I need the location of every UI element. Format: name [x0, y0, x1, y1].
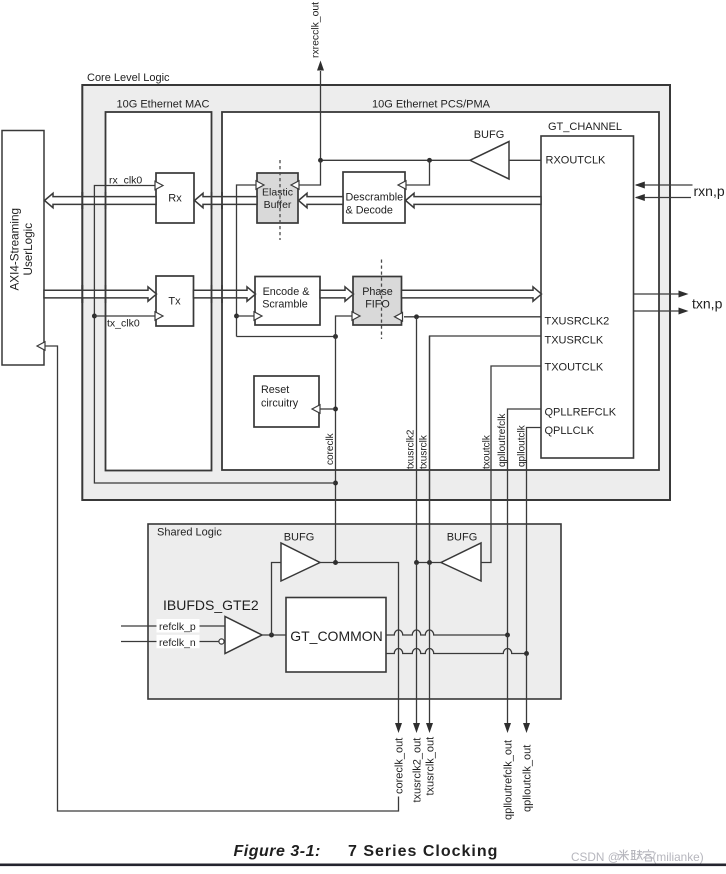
wire rxrecclk to Elastic Buffer read clock	[297, 160, 321, 185]
wire qplloutrefclk_out output arrow	[507, 699, 509, 724]
svg-text:FIFO: FIFO	[365, 299, 390, 311]
wire TXUSRCLK2 pin to Phase FIFO read clock	[404, 316, 541, 318]
svg-text:QPLLREFCLK: QPLLREFCLK	[545, 407, 617, 419]
node coreclk-to-userlogic junction	[333, 481, 338, 486]
wire coreclk vertical (to shared logic BUFG)	[335, 337, 337, 563]
block Encode & Scramble	[255, 277, 320, 326]
wire coreclk horizontal segment	[237, 336, 336, 338]
node tx_clk0 junction	[92, 314, 97, 319]
wire TXOUTCLK pin to BUFG input	[481, 366, 541, 563]
svg-text:Phase: Phase	[362, 286, 393, 298]
svg-text:10G Ethernet MAC: 10G Ethernet MAC	[117, 98, 210, 110]
block AXI4-Streaming UserLogic	[2, 131, 44, 366]
buffer BUFG (coreclk)	[281, 543, 320, 581]
svg-text:10G Ethernet PCS/PMA: 10G Ethernet PCS/PMA	[372, 98, 491, 110]
wire GT_COMMON qplloutrefclk output (with crossover hops)	[386, 630, 508, 635]
block Elastic Buffer	[257, 173, 298, 223]
bus Encode & Scramble to Phase FIFO (tx data)	[320, 287, 354, 301]
wire coreclk to Phase FIFO write clock	[336, 316, 353, 337]
svg-text:GT_COMMON: GT_COMMON	[290, 628, 383, 644]
wire BUFG output (rxoutclk distribution)	[321, 159, 471, 161]
node rxrecclk junction	[318, 158, 323, 163]
svg-text:txusrclk: txusrclk	[419, 434, 430, 469]
node coreclk-to-Encode junction	[234, 314, 239, 319]
node coreclk BUFG tap	[333, 560, 338, 565]
wire txusrclk2/txusrclk verticals to outputs	[416, 563, 418, 700]
wire rxoutclk to Descramble clock	[404, 160, 430, 185]
svg-text:AXI4-Streaming: AXI4-Streaming	[9, 208, 22, 291]
wire txusrclk_out output arrow	[429, 699, 431, 724]
wire TXUSRCLK pin run	[430, 336, 542, 563]
svg-text:qplloutrefclk: qplloutrefclk	[497, 413, 508, 467]
svg-text:Scramble: Scramble	[262, 299, 308, 311]
svg-text:Reset: Reset	[261, 384, 289, 396]
node qplloutrefclk junction	[505, 633, 510, 638]
buffer BUFG (txusrclk)	[441, 543, 481, 581]
svg-text:Encode &: Encode &	[263, 286, 311, 298]
buffer BUFG (RXOUTCLK)	[470, 142, 509, 180]
svg-text:TXUSRCLK2: TXUSRCLK2	[545, 316, 610, 328]
svg-text:txusrclk2_out: txusrclk2_out	[412, 738, 424, 803]
svg-text:rxn,p: rxn,p	[694, 183, 725, 199]
label refclk_p	[157, 619, 200, 633]
wire coreclk to Elastic Buffer write clock	[237, 185, 257, 337]
footer rule	[0, 864, 726, 867]
svg-text:Buffer: Buffer	[264, 199, 292, 211]
svg-text:qplloutrefclk_out: qplloutrefclk_out	[503, 740, 515, 820]
bus GT_CHANNEL to Descramble (rx data)	[406, 193, 542, 207]
svg-text:QPLLCLK: QPLLCLK	[545, 425, 595, 437]
wire qpll output verticals	[507, 635, 509, 699]
wire BUFG txusrclk output	[417, 562, 442, 564]
wire RXOUTCLK pin to BUFG input	[509, 159, 541, 161]
svg-text:TXOUTCLK: TXOUTCLK	[545, 362, 604, 374]
svg-text:coreclk: coreclk	[325, 432, 336, 465]
block GT_COMMON	[286, 598, 386, 673]
block Reset circuitry	[254, 376, 319, 427]
svg-text:rxrecclk_out: rxrecclk_out	[311, 2, 322, 58]
svg-text:circuitry: circuitry	[261, 398, 299, 410]
svg-text:qplloutclk: qplloutclk	[517, 424, 528, 467]
svg-text:Shared Logic: Shared Logic	[157, 527, 222, 539]
node txusrclk2 tap	[414, 560, 419, 565]
svg-text:Rx: Rx	[168, 193, 182, 205]
svg-text:Figure 3-1:: Figure 3-1:	[234, 843, 321, 860]
block Core Level Logic (outer frame)	[82, 85, 670, 500]
bus Rx to AXI4 UserLogic (rx data)	[45, 193, 157, 207]
svg-text:CSDN @: CSDN @	[571, 850, 620, 864]
svg-text:Descramble: Descramble	[346, 192, 404, 204]
bus Descramble to Elastic Buffer (rx data)	[299, 193, 344, 207]
svg-text:GT_CHANNEL: GT_CHANNEL	[548, 121, 622, 133]
block Shared Logic	[148, 524, 561, 699]
svg-text:refclk_p: refclk_p	[159, 621, 196, 633]
wire coreclk to Encode & Scramble clock	[237, 315, 255, 317]
buffer IBUFDS_GTE2	[225, 617, 262, 654]
bus Elastic Buffer to Rx (rx data)	[195, 193, 258, 207]
block 10G Ethernet MAC	[106, 112, 212, 471]
svg-text:txn,p: txn,p	[692, 296, 723, 312]
svg-text:RXOUTCLK: RXOUTCLK	[546, 155, 607, 167]
wire QPLLCLK pin run	[527, 428, 542, 654]
wire txn,p output lines	[634, 293, 680, 295]
svg-text:qplloutclk_out: qplloutclk_out	[522, 745, 534, 812]
block Phase FIFO	[353, 277, 402, 326]
svg-text:Elastic: Elastic	[262, 187, 293, 199]
dashed line through Elastic Buffer	[279, 160, 281, 240]
wire coreclk to Reset circuitry	[320, 408, 336, 410]
node txusrclk tap	[427, 560, 432, 565]
wire refclk_p stub	[121, 625, 225, 627]
node refclk junction	[269, 633, 274, 638]
wire qplloutclk_out output arrow	[526, 699, 528, 724]
svg-text:txusrclk_out: txusrclk_out	[425, 737, 437, 796]
node coreclk main junction	[333, 334, 338, 339]
svg-text:rx_clk0: rx_clk0	[109, 175, 142, 187]
node rxoutclk-to-descramble junction	[427, 158, 432, 163]
svg-text:txusrclk2: txusrclk2	[406, 429, 417, 469]
node coreclk-to-reset junction	[333, 407, 338, 412]
bus Tx to Encode & Scramble (tx data)	[194, 287, 256, 301]
node txusrclk2 junction	[414, 314, 419, 319]
wire MAC/PCS/core edges over buses	[81, 192, 83, 209]
wire coreclk_out output arrow	[398, 699, 400, 724]
wire txusrclk2_out output arrow	[416, 699, 418, 724]
wire BUFG coreclk output	[320, 563, 399, 700]
svg-text:BUFG: BUFG	[474, 129, 505, 141]
svg-text:UserLogic: UserLogic	[22, 223, 35, 276]
label refclk_n	[157, 635, 200, 649]
svg-text:7 Series Clocking: 7 Series Clocking	[348, 843, 498, 860]
wire tx_clk0 to Tx clock	[94, 315, 155, 317]
wire rxn,p input lines	[636, 184, 693, 186]
inversion bubble on refclk_n input	[219, 639, 224, 644]
wire GT_COMMON qplloutclk output (with crossover hops)	[386, 649, 527, 654]
svg-text:(milianke): (milianke)	[653, 850, 704, 864]
block GT_CHANNEL	[541, 136, 634, 458]
svg-text:tx_clk0: tx_clk0	[107, 318, 140, 330]
svg-text:refclk_n: refclk_n	[159, 637, 196, 649]
svg-text:Core Level Logic: Core Level Logic	[87, 72, 170, 84]
svg-text:Tx: Tx	[168, 296, 181, 308]
svg-text:IBUFDS_GTE2: IBUFDS_GTE2	[163, 597, 259, 613]
wire coreclk_out to AXI4 UserLogic clock	[46, 346, 399, 811]
svg-text:& Decode: & Decode	[346, 205, 393, 217]
dashed line through Phase FIFO	[381, 260, 383, 340]
block 10G Ethernet PCS/PMA	[222, 112, 659, 470]
svg-text:BUFG: BUFG	[284, 532, 315, 544]
wire txusrclk2 vertical	[416, 317, 418, 563]
block Rx	[156, 173, 194, 223]
svg-text:TXUSRCLK: TXUSRCLK	[545, 335, 604, 347]
block Tx	[156, 276, 194, 326]
svg-text:txoutclk: txoutclk	[482, 434, 493, 469]
wire refclk_n stub	[121, 641, 219, 643]
wire QPLLREFCLK pin run	[508, 409, 542, 635]
bus AXI4 UserLogic to Tx (tx data)	[44, 287, 157, 301]
svg-text:BUFG: BUFG	[447, 532, 478, 544]
wire coreclk to MAC clock inputs (rx_clk0/tx_clk0 net)	[94, 186, 335, 484]
wire refclk to BUFG input	[272, 563, 282, 636]
wire rxrecclk_out (up from rxoutclk node)	[320, 71, 322, 160]
block Descramble & Decode	[343, 172, 405, 223]
bus Phase FIFO to GT_CHANNEL (tx data)	[402, 287, 542, 301]
node qplloutclk junction	[524, 651, 529, 656]
svg-text:coreclk_out: coreclk_out	[394, 738, 406, 794]
wire IBUFDS output to GT_COMMON	[262, 634, 286, 636]
